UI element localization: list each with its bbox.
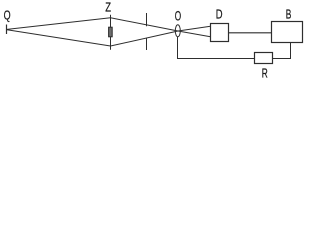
svg-text:Z: Z (105, 0, 111, 15)
svg-text:R: R (262, 65, 268, 80)
svg-text:D: D (216, 7, 223, 22)
svg-text:Q: Q (4, 8, 11, 23)
svg-text:B: B (286, 7, 292, 22)
svg-text:O: O (175, 8, 181, 23)
